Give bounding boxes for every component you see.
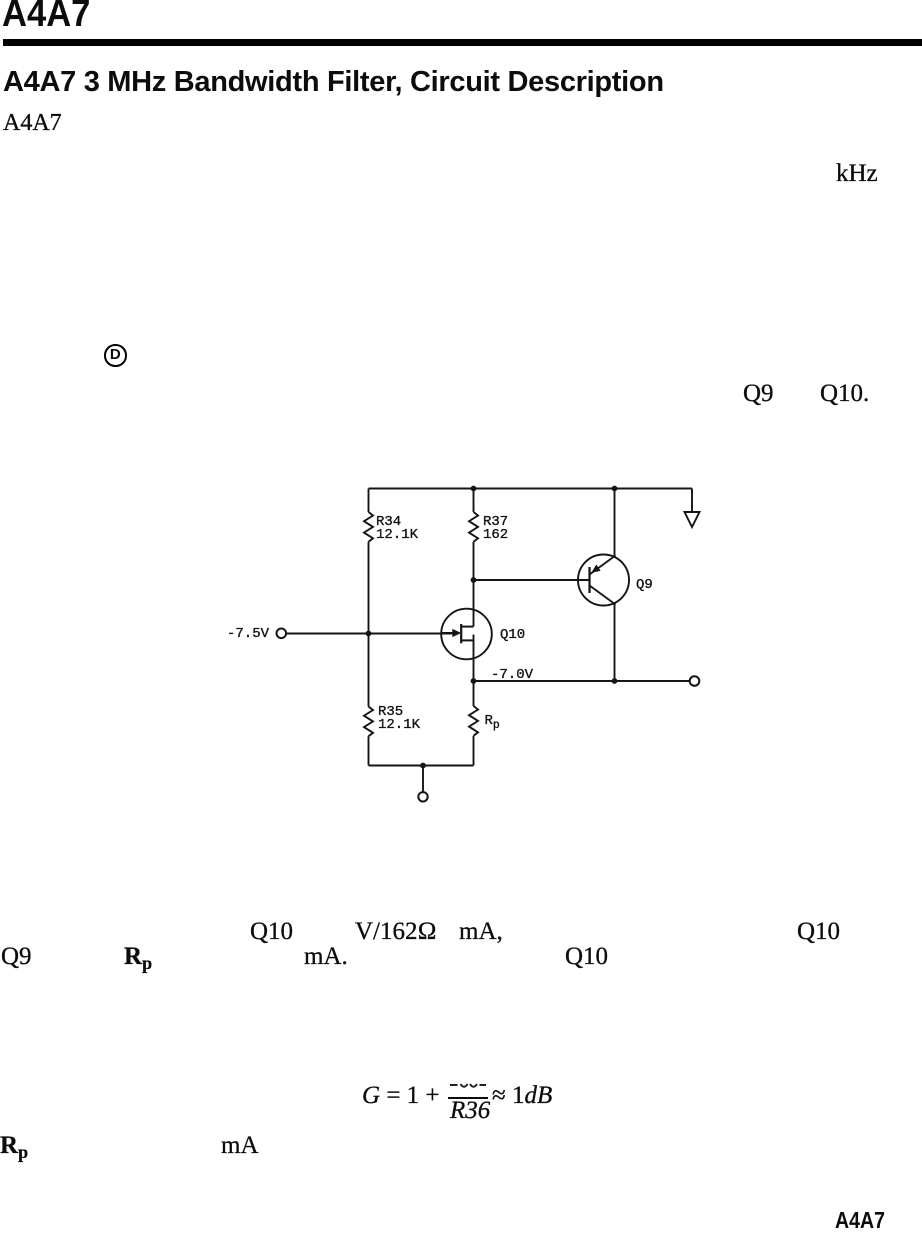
circled D bbox=[104, 344, 127, 367]
body fragment mA bottom bbox=[221, 1133, 259, 1158]
footer A4A7 bbox=[835, 1209, 885, 1232]
terminal -7.5V input bbox=[277, 629, 287, 639]
wire output bbox=[474, 680, 690, 682]
wire Q9 emitter to rail bbox=[614, 489, 616, 557]
body fragment Q9 bbox=[743, 381, 774, 406]
transistor Q10 bbox=[441, 609, 492, 660]
label R37 value bbox=[483, 516, 508, 541]
node top rail / Q9 emitter bbox=[612, 486, 618, 492]
label -7.5V bbox=[227, 628, 269, 641]
page header A4A7 bbox=[2, 0, 90, 33]
wire top supply rail bbox=[369, 488, 693, 490]
body fragment Q10 line1 bbox=[250, 919, 293, 944]
wire middle branch (source) bbox=[473, 635, 475, 706]
wire bottom rail bbox=[369, 765, 474, 767]
wire Q9 collector down bbox=[614, 604, 616, 681]
resistor Rp bbox=[469, 706, 478, 736]
body fragment Q9 line2 bbox=[1, 944, 32, 969]
label R34 value bbox=[376, 516, 418, 541]
body fragment mA, bbox=[459, 919, 503, 944]
resistor R35 bbox=[364, 707, 373, 737]
formula denominator R36 bbox=[450, 1098, 490, 1123]
header rule bbox=[3, 39, 922, 46]
label Q9 bbox=[636, 579, 653, 592]
formula G = 1 + x/R36 = 1dB bbox=[362, 1083, 552, 1108]
body fragment kHz bbox=[836, 161, 878, 186]
body fragment A4A7 bbox=[3, 111, 62, 135]
node Q9 collector output bbox=[612, 678, 618, 684]
wire left branch upper bbox=[368, 489, 370, 513]
body fragment V/162 bbox=[355, 919, 437, 944]
node bottom terminal bbox=[420, 763, 426, 769]
terminal bottom bbox=[418, 792, 427, 801]
body fragment Q10. bbox=[820, 381, 869, 406]
formula fraction bar bbox=[448, 1097, 488, 1099]
formula numerator dashes bbox=[449, 1083, 487, 1090]
body fragment Rp bottom bbox=[0, 1133, 28, 1161]
section heading bbox=[3, 68, 664, 97]
wire gate input bbox=[286, 633, 452, 635]
wire middle branch (drain) bbox=[473, 542, 475, 627]
wire left branch middle bbox=[368, 542, 370, 707]
label -7.0V bbox=[491, 669, 533, 682]
resistor R37 bbox=[469, 512, 478, 542]
wire middle branch upper bbox=[473, 489, 475, 513]
label R35 value bbox=[378, 706, 420, 731]
node top rail / R37 bbox=[471, 486, 477, 492]
body fragment Q10 line1 right bbox=[797, 919, 840, 944]
body fragment Q10 line2 bbox=[565, 944, 608, 969]
label Q10 bbox=[500, 629, 525, 642]
resistor R34 bbox=[364, 512, 373, 542]
node source output bbox=[471, 678, 477, 684]
body fragment mA. line2 bbox=[304, 944, 348, 969]
wire left branch lower bbox=[368, 736, 370, 765]
ground bbox=[685, 512, 700, 527]
node gate bias bbox=[366, 631, 372, 637]
transistor Q9 bbox=[578, 555, 629, 606]
wire ground stub bbox=[691, 489, 693, 513]
wire Q9 base bbox=[474, 579, 590, 581]
wire middle branch lower bbox=[473, 736, 475, 766]
node drain-base bbox=[471, 577, 477, 583]
label Rp bbox=[485, 715, 500, 733]
body fragment Rp line2 bbox=[124, 944, 152, 972]
terminal output bbox=[690, 676, 700, 686]
wire bottom terminal stub bbox=[422, 766, 424, 793]
